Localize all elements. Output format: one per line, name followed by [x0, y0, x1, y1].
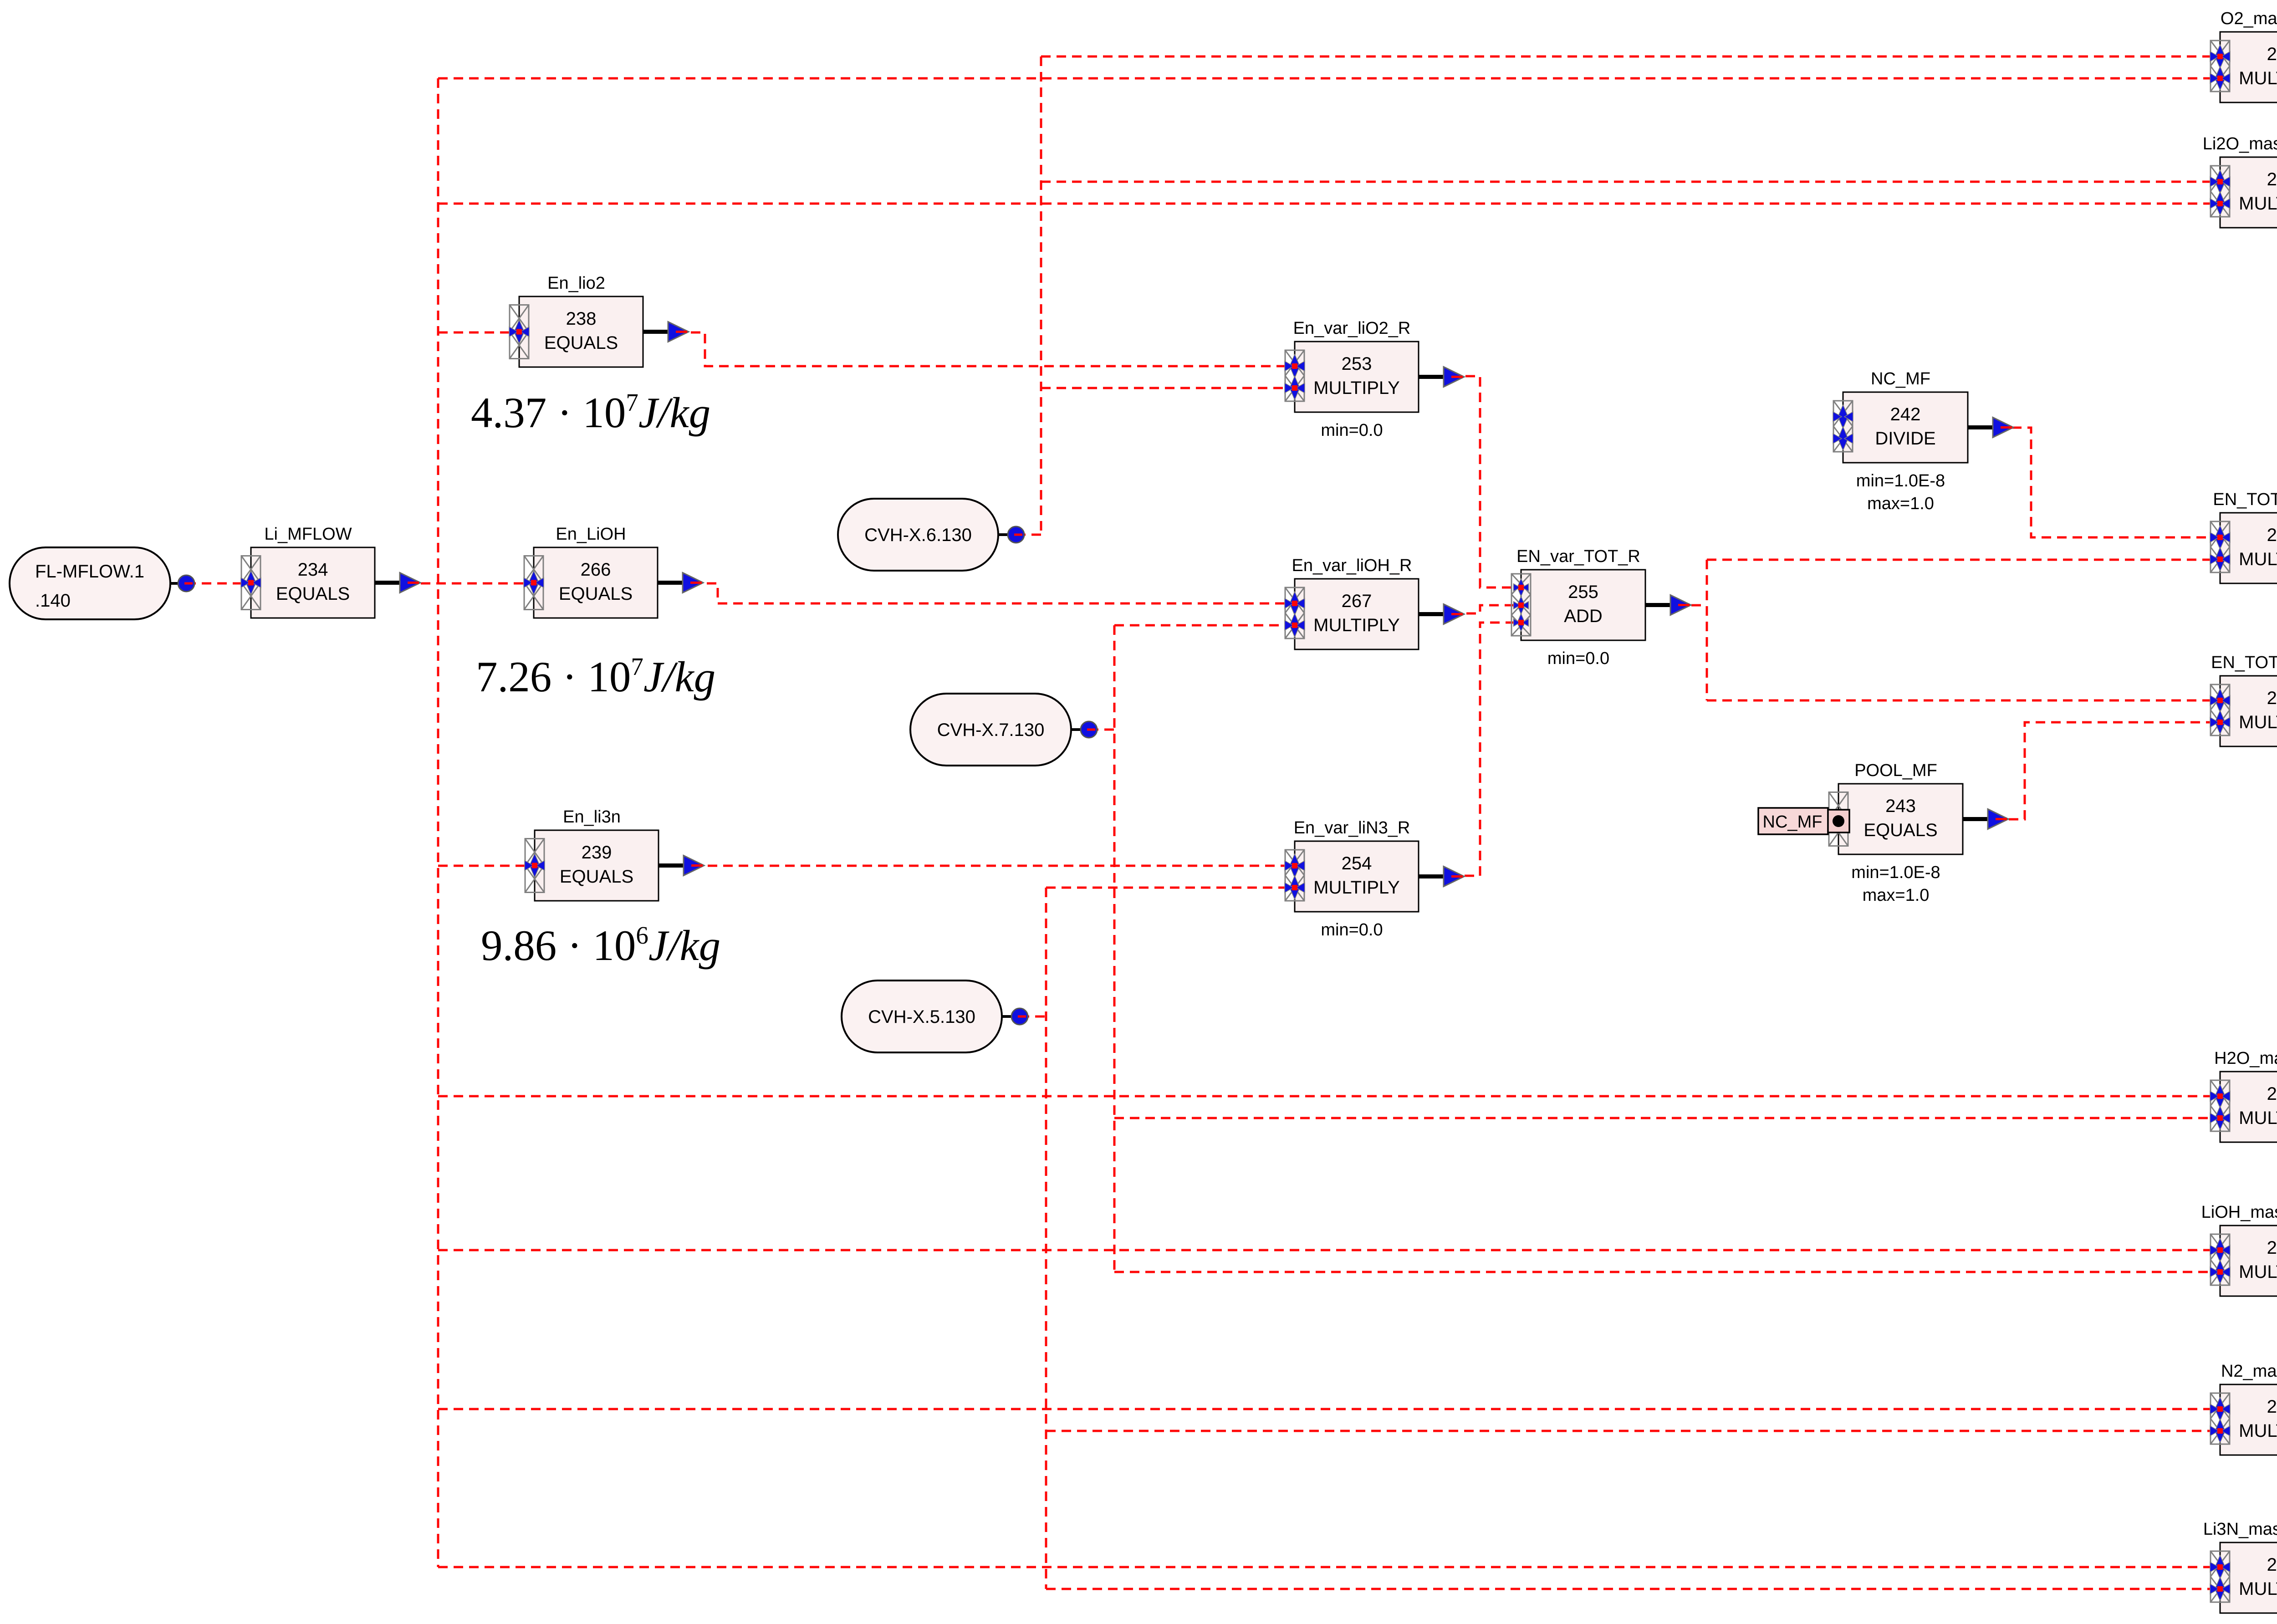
wire V2 branch to CF258 input2 — [1046, 1430, 2220, 1432]
block CF243 POOL_MF (EQUALS) — [1838, 784, 1963, 854]
wire T1 branch to CF258 input1 — [438, 1408, 2220, 1410]
wire CF253 output to CF255 input1 — [1450, 376, 1521, 587]
wire T2 branch to CF257 input1 — [1041, 56, 2220, 58]
block CF268 H2O_mass_well (MULTIPLY) — [2220, 1072, 2277, 1142]
svg-text:Li3N_mass_source: Li3N_mass_source — [2203, 1520, 2277, 1539]
wire T1 branch to CF265 input1 — [438, 1249, 2220, 1251]
svg-text:255: 255 — [1568, 582, 1598, 602]
svg-text:EQUALS: EQUALS — [544, 333, 618, 353]
svg-text:EQUALS: EQUALS — [276, 584, 350, 604]
svg-text:4.37 · 107J/kg: 4.37 · 107J/kg — [471, 388, 710, 437]
block CF267 En_var_liOH_R (MULTIPLY) — [1295, 579, 1419, 649]
connector node (blue circle) — [170, 582, 186, 585]
block CF263 Li2O_mass_source (MULTIPLY) — [2220, 157, 2277, 228]
svg-text:258: 258 — [2267, 1397, 2277, 1417]
svg-text:MULTIPLY: MULTIPLY — [2239, 1262, 2277, 1282]
svg-text:268: 268 — [2267, 1084, 2277, 1104]
svg-text:En_var_liO2_R: En_var_liO2_R — [1293, 319, 1411, 338]
connector node (blue circle) — [998, 533, 1016, 536]
block CF239 En_li3n (EQUALS) — [535, 830, 659, 901]
svg-text:NC_MF: NC_MF — [1871, 369, 1930, 388]
svg-text:LiOH_mass_source: LiOH_mass_source — [2201, 1203, 2277, 1222]
svg-text:7.26 · 107J/kg: 7.26 · 107J/kg — [476, 653, 715, 701]
block CF265 LiOH_mass_source (MULTIPLY) — [2220, 1226, 2277, 1296]
svg-text:H2O_mass_well: H2O_mass_well — [2214, 1049, 2277, 1068]
svg-text:max=1.0: max=1.0 — [1867, 494, 1934, 513]
wire V3 branch to CF268 input2 — [1114, 1117, 2220, 1119]
svg-text:253: 253 — [1342, 354, 1372, 374]
svg-text:EN_var_TOT_R: EN_var_TOT_R — [1516, 547, 1640, 566]
wire T1 branch to CF239 input — [438, 865, 535, 867]
wire trunk V3 x=2447 (CVH-X.7.130) — [1113, 625, 1116, 1272]
block CF253 En_var_liO2_R (MULTIPLY) — [1295, 342, 1419, 412]
svg-text:242: 242 — [1890, 404, 1921, 424]
svg-text:Li_MFLOW: Li_MFLOW — [264, 525, 352, 544]
block CF242 NC_MF (DIVIDE) — [1843, 392, 1968, 463]
svg-text:239: 239 — [582, 843, 612, 863]
svg-text:264: 264 — [2267, 1555, 2277, 1575]
source pill CVH-X.6.130 — [838, 499, 998, 571]
wire CF243 output to CF261 input2 — [1993, 722, 2220, 819]
svg-text:257: 257 — [2267, 44, 2277, 64]
wire T1 bottom to CF264 input1 — [438, 1566, 2220, 1568]
svg-text:MULTIPLY: MULTIPLY — [1313, 378, 1400, 398]
svg-text:min=0.0: min=0.0 — [1321, 421, 1383, 440]
wire V2 top to CF254 input2 — [1046, 887, 1295, 889]
svg-text:CVH-X.7.130: CVH-X.7.130 — [937, 720, 1045, 740]
svg-text:254: 254 — [1342, 853, 1372, 873]
svg-text:267: 267 — [1342, 591, 1372, 611]
wire riser to CF261 input1 — [1707, 700, 2220, 702]
svg-text:NC_MF: NC_MF — [1763, 812, 1823, 832]
wire CF238 output to CF253 input1 — [675, 332, 1295, 366]
svg-text:MULTIPLY: MULTIPLY — [1313, 878, 1400, 898]
svg-text:EN_TOT_pool_R: EN_TOT_pool_R — [2211, 653, 2277, 672]
block CF238 En_lio2 (EQUALS) — [519, 296, 643, 367]
wire CF242 output to CF262 input1 — [1996, 428, 2220, 537]
svg-text:POOL_MF: POOL_MF — [1854, 761, 1937, 780]
wire CF255 output riser x=3748 — [1706, 560, 1708, 700]
svg-text:MULTIPLY: MULTIPLY — [2239, 1421, 2277, 1441]
wire trunk T1 x=962 (Li_MFLOW) — [437, 78, 439, 1567]
svg-text:min=0.0: min=0.0 — [1321, 920, 1383, 940]
wire CF266 output to CF267 input1 — [691, 583, 1295, 603]
wire V2 bottom to CF264 input2 — [1046, 1588, 2220, 1590]
source pill CVH-X.5.130 — [842, 981, 1002, 1052]
svg-text:ADD: ADD — [1564, 606, 1602, 626]
svg-text:263: 263 — [2267, 169, 2277, 189]
svg-text:DIVIDE: DIVIDE — [1875, 429, 1935, 449]
wire FL-MFLOW.1 to CF234 input — [186, 582, 251, 585]
block CF255 EN_var_TOT_R (ADD) — [1521, 570, 1645, 640]
wire V3 bottom to CF265 input2 — [1114, 1271, 2220, 1273]
svg-text:261: 261 — [2267, 688, 2277, 708]
svg-text:234: 234 — [298, 560, 328, 580]
svg-text:CVH-X.5.130: CVH-X.5.130 — [868, 1007, 975, 1027]
svg-text:MULTIPLY: MULTIPLY — [2239, 712, 2277, 732]
wire T2 branch to CF253 input2 — [1041, 387, 1295, 389]
svg-text:MULTIPLY: MULTIPLY — [2239, 194, 2277, 214]
wire CVH-X.5.130 circle to V2 — [1020, 1016, 1046, 1018]
svg-text:EQUALS: EQUALS — [559, 584, 633, 604]
svg-text:min=1.0E-8: min=1.0E-8 — [1856, 471, 1945, 490]
wire T1 branch to CF257 input2 — [438, 77, 2220, 80]
block CF266 En_LiOH (EQUALS) — [534, 547, 658, 618]
block CF264 Li3N_mass_source (MULTIPLY) — [2220, 1542, 2277, 1613]
block CF257 O2_mass_well (MULTIPLY) — [2220, 32, 2277, 102]
connector node (blue circle) — [1002, 1015, 1020, 1018]
wire CF239 output to CF254 input1 (crosses V3) — [692, 865, 1295, 867]
source pill FL-MFLOW.1 .140 — [10, 547, 170, 619]
block CF262 EN_TOT_atm_R (MULTIPLY) — [2220, 513, 2277, 583]
svg-text:262: 262 — [2267, 525, 2277, 545]
svg-text:MULTIPLY: MULTIPLY — [2239, 549, 2277, 569]
svg-text:.140: .140 — [35, 591, 71, 611]
svg-text:min=1.0E-8: min=1.0E-8 — [1851, 863, 1940, 882]
svg-text:min=0.0: min=0.0 — [1547, 649, 1609, 668]
svg-text:243: 243 — [1885, 796, 1916, 816]
svg-text:9.86 · 106J/kg: 9.86 · 106J/kg — [481, 921, 720, 970]
wire riser to CF262 input2 — [1707, 559, 2220, 561]
wire CF267 output to CF255 input2 — [1451, 605, 1521, 613]
tag NC_MF input label of CF243 — [1758, 808, 1828, 834]
svg-text:En_li3n: En_li3n — [563, 807, 621, 827]
wire trunk V2 x=2297 (CVH-X.5.130) — [1045, 888, 1047, 1589]
svg-text:MULTIPLY: MULTIPLY — [2239, 68, 2277, 88]
tag connector dot of CF243 — [1828, 810, 1849, 832]
svg-text:O2_mass_well: O2_mass_well — [2221, 9, 2277, 28]
block CF254 En_var_liN3_R (MULTIPLY) — [1295, 841, 1419, 912]
svg-text:N2_mass_well: N2_mass_well — [2221, 1362, 2277, 1381]
wire trunk T2 x=2286 (CVH-X.6.130) — [1040, 56, 1042, 535]
wire T2 branch to CF263 input1 — [1041, 181, 2220, 183]
wire T1 branch to CF263 input2 — [438, 203, 2220, 205]
wire CF255 output stub — [1676, 604, 1707, 607]
svg-text:EQUALS: EQUALS — [560, 867, 633, 887]
svg-text:CVH-X.6.130: CVH-X.6.130 — [864, 525, 972, 545]
wire T1 branch to CF268 input1 — [438, 1095, 2220, 1098]
wire V3 top to CF267 input2 — [1114, 624, 1295, 627]
svg-text:EN_TOT_atm_R: EN_TOT_atm_R — [2213, 490, 2277, 509]
svg-text:265: 265 — [2267, 1238, 2277, 1258]
wire CF234 output to CF266 input (crosses T1) — [405, 582, 534, 585]
svg-text:En_lio2: En_lio2 — [547, 274, 605, 293]
svg-text:max=1.0: max=1.0 — [1863, 886, 1930, 905]
svg-text:238: 238 — [566, 309, 597, 329]
wire CVH-X.6.130 circle to T2 — [1016, 534, 1041, 536]
block CF258 N2_mass_well (MULTIPLY) — [2220, 1384, 2277, 1455]
svg-text:Li2O_mass_source: Li2O_mass_source — [2203, 134, 2277, 153]
svg-text:En_var_liOH_R: En_var_liOH_R — [1292, 556, 1412, 575]
wire CF254 output to CF255 input3 — [1449, 623, 1521, 876]
wire CVH-X.7.130 circle to V3 — [1089, 729, 1114, 731]
svg-text:266: 266 — [581, 560, 611, 580]
source pill CVH-X.7.130 — [910, 694, 1071, 766]
svg-text:En_var_liN3_R: En_var_liN3_R — [1294, 818, 1410, 838]
block CF261 EN_TOT_pool_R (MULTIPLY) — [2220, 676, 2277, 746]
svg-text:MULTIPLY: MULTIPLY — [1313, 615, 1400, 635]
svg-text:MULTIPLY: MULTIPLY — [2239, 1579, 2277, 1599]
svg-text:En_LiOH: En_LiOH — [556, 525, 626, 544]
svg-text:FL-MFLOW.1: FL-MFLOW.1 — [35, 562, 144, 582]
wire T1 branch to CF238 input — [438, 332, 519, 334]
connector node (blue circle) — [1071, 728, 1089, 731]
svg-text:EQUALS: EQUALS — [1863, 820, 1937, 840]
svg-text:MULTIPLY: MULTIPLY — [2239, 1108, 2277, 1128]
block CF234 Li_MFLOW (EQUALS) — [251, 547, 375, 618]
